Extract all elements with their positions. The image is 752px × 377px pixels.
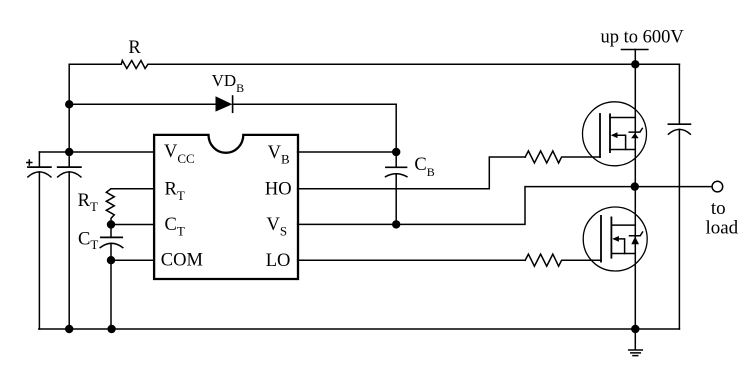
transistor Q1 circle bbox=[583, 102, 647, 166]
transistor Q2 drain bar bbox=[611, 224, 635, 226]
wire COM pin row bbox=[111, 259, 155, 261]
capacitor CT bbox=[110, 225, 112, 238]
transistor Q2 body diode bbox=[630, 232, 643, 236]
capacitor Cbus bbox=[668, 123, 690, 125]
capacitor C2 bbox=[58, 166, 81, 168]
transistor Q2 source bar bbox=[611, 253, 635, 255]
svg-text:R: R bbox=[128, 38, 141, 58]
svg-text:up to 600V: up to 600V bbox=[601, 27, 685, 47]
transistor Q1 body diode bbox=[629, 128, 642, 132]
wire bottom rail bbox=[39, 328, 680, 330]
wire RT pin row bbox=[111, 188, 155, 190]
capacitor C1 electrolytic plus sign bbox=[27, 160, 32, 165]
wire VB row bbox=[298, 151, 397, 153]
wire HO to gate resistor top bbox=[298, 157, 526, 189]
resistor Rg1 top gate bbox=[525, 151, 600, 163]
wire LO to gate resistor bottom bbox=[298, 259, 526, 261]
wire right bus cap branch bbox=[678, 64, 680, 329]
node junction dots bbox=[65, 60, 640, 333]
transistor Q2 gate plate bbox=[600, 216, 602, 262]
capacitor CB bbox=[386, 166, 407, 168]
capacitor C1 electrolytic bbox=[28, 166, 51, 168]
transistor Q1 gate plate bbox=[599, 114, 601, 157]
node up to 600V T-bar bbox=[622, 49, 648, 51]
transistor Q2 body arrow bbox=[614, 239, 624, 254]
wire half-bridge vertical bbox=[634, 64, 636, 329]
transistor Q2 circle bbox=[583, 207, 647, 271]
wire diode row bbox=[69, 103, 396, 105]
svg-text:COM: COM bbox=[161, 251, 203, 271]
wire top rail with resistor R bbox=[69, 61, 679, 69]
wire CB branch vertical bbox=[395, 104, 397, 224]
terminal to load bbox=[712, 181, 723, 192]
transistor Q2 channel plate bbox=[610, 217, 612, 257]
transistor Q1 body arrow bbox=[613, 135, 626, 149]
wire left vertical main bbox=[68, 64, 70, 329]
diode VDB bbox=[216, 96, 233, 111]
svg-text:HO: HO bbox=[265, 180, 292, 200]
svg-text:load: load bbox=[705, 218, 738, 239]
wire VS row to midpoint bbox=[298, 187, 712, 225]
op-amp U1 IC body with notch bbox=[154, 135, 298, 279]
transistor Q1 channel plate bbox=[609, 114, 611, 152]
svg-text:to: to bbox=[711, 198, 726, 219]
resistor Rg2 bottom gate bbox=[525, 254, 601, 266]
wire CT pin row bbox=[111, 224, 155, 226]
wire Vcc row left bbox=[39, 151, 154, 153]
svg-text:LO: LO bbox=[266, 251, 291, 271]
transistor Q1 drain bar bbox=[610, 117, 635, 119]
resistor RT vertical bbox=[106, 189, 114, 225]
transistor Q1 source bar bbox=[610, 149, 635, 151]
ground bbox=[634, 329, 636, 350]
wire left cap branch vertical bbox=[38, 152, 40, 329]
